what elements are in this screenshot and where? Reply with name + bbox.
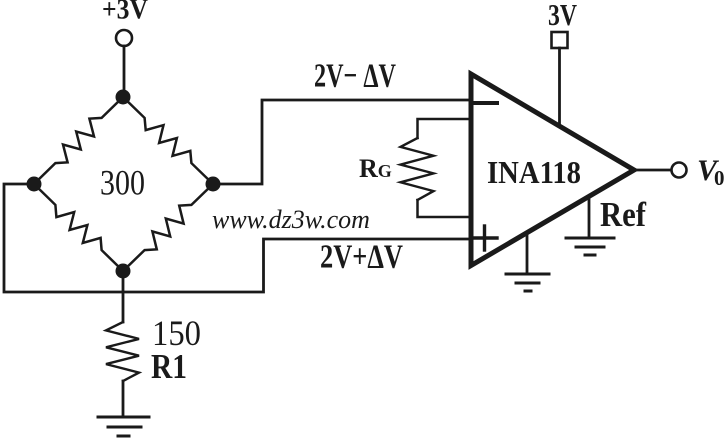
svg-text:2V+ΔV: 2V+ΔV	[320, 239, 403, 276]
svg-text:INA118: INA118	[487, 154, 581, 190]
svg-text:3V: 3V	[548, 0, 577, 32]
svg-text:Ref: Ref	[600, 195, 646, 234]
svg-text:www.dz3w.com: www.dz3w.com	[212, 205, 370, 234]
svg-text:+3V: +3V	[102, 0, 148, 26]
svg-text:300: 300	[100, 163, 145, 203]
svg-text:0: 0	[714, 166, 724, 190]
svg-text:2V− ΔV: 2V− ΔV	[314, 58, 396, 95]
svg-text:R1: R1	[151, 347, 187, 386]
